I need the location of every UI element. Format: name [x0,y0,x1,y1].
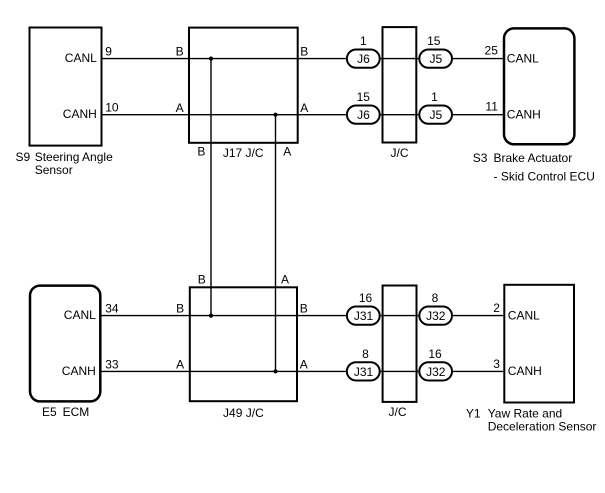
svg-text:CANL: CANL [65,51,97,65]
wire J32-to-Y1 pin 3 (net A bottom) [453,370,503,372]
svg-text:B: B [198,272,206,286]
svg-text:J6: J6 [357,52,370,66]
svg-text:9: 9 [105,45,112,59]
svg-text:E5: E5 [42,405,57,419]
svg-text:Y1: Y1 [466,407,481,421]
junction dot net B in J17 [209,57,213,61]
wire CANH S9-to-J6 (net A top) [103,114,346,116]
svg-text:A: A [176,358,184,372]
svg-text:J5: J5 [429,108,442,122]
svg-text:- Skid Control ECU: - Skid Control ECU [494,170,595,184]
svg-text:25: 25 [485,44,499,58]
wire J31-to-J32 through J/C (net A bottom) [381,370,419,372]
wire J5-to-S3 pin 11 (net A top) [453,114,503,116]
svg-text:CANH: CANH [507,108,541,122]
svg-text:16: 16 [428,347,442,361]
svg-text:A: A [283,145,291,159]
label S9 Steering Angle Sensor [16,150,114,177]
wire vertical net A J17-to-J49 [275,115,277,372]
svg-text:S9: S9 [16,150,31,164]
svg-text:Steering Angle: Steering Angle [35,150,113,164]
wire CANL E5-to-J31 (net B bottom) [102,315,346,317]
junction block J49 J/C box [190,287,297,401]
svg-text:8: 8 [432,291,439,305]
wire CANL S9-to-J6 (net B top) [103,58,346,60]
svg-text:1: 1 [431,90,438,104]
component S3 Brake Actuator box [504,28,574,144]
svg-text:J31: J31 [354,365,374,379]
svg-text:J49 J/C: J49 J/C [223,406,264,420]
svg-text:CANH: CANH [508,364,542,378]
component S9 Steering Angle Sensor box [30,28,102,146]
label E5 ECM [42,405,89,419]
svg-text:CANL: CANL [508,308,540,322]
svg-text:A: A [300,101,308,115]
connector J5 pin 1 (net A) [419,90,452,124]
svg-text:J5: J5 [429,52,442,66]
svg-text:J31: J31 [354,309,374,323]
wire vertical net B J17-to-J49 [210,59,212,316]
connector J32 pin 16 (net A) [419,347,452,381]
svg-text:33: 33 [105,358,119,372]
wire J32-to-Y1 pin 2 (net B bottom) [453,315,503,317]
svg-text:11: 11 [485,100,498,114]
svg-text:B: B [197,145,205,159]
connector J6 pin 15 (net A) [347,90,380,124]
junction dot net A in J17 [273,113,277,117]
svg-text:A: A [176,101,184,115]
svg-text:J/C: J/C [391,146,409,160]
junction dot net A in J49 [273,369,277,373]
label Y1 Yaw Rate and Deceleration Sensor [466,407,597,434]
svg-text:J/C: J/C [389,405,407,419]
svg-text:J32: J32 [426,365,446,379]
svg-text:15: 15 [357,90,371,104]
connector J5 pin 15 (net B) [419,34,452,68]
connector J32 pin 8 (net B) [419,291,452,325]
svg-text:B: B [176,302,184,316]
svg-text:8: 8 [362,347,369,361]
connector J6 pin 1 (net B) [347,34,380,68]
svg-text:Deceleration Sensor: Deceleration Sensor [488,420,597,434]
junction dot net B in J49 [209,314,213,318]
svg-text:15: 15 [427,34,441,48]
connector J31 pin 16 (net B) [347,291,380,325]
component E5 ECM box [30,286,100,402]
svg-text:J32: J32 [426,309,446,323]
svg-text:CANH: CANH [62,364,96,378]
connector J31 pin 8 (net A) [347,347,380,381]
svg-text:CANL: CANL [64,308,96,322]
junction block J/C box bottom [383,286,417,402]
svg-text:10: 10 [105,101,119,115]
wire J5-to-S3 pin 25 (net B top) [453,58,503,60]
svg-text:Sensor: Sensor [35,163,73,177]
svg-text:B: B [300,302,308,316]
svg-text:B: B [300,45,308,59]
label S3 Brake Actuator - Skid Control ECU [473,151,595,184]
svg-text:Brake Actuator: Brake Actuator [494,151,573,165]
svg-text:34: 34 [105,302,119,316]
svg-text:J17 J/C: J17 J/C [223,146,264,160]
svg-text:16: 16 [359,291,373,305]
svg-text:1: 1 [360,34,367,48]
component Y1 Yaw Rate and Deceleration Sensor box [504,285,574,403]
svg-text:S3: S3 [473,151,488,165]
svg-text:CANH: CANH [63,107,97,121]
svg-text:J6: J6 [357,108,370,122]
junction block J/C box top [383,27,417,142]
svg-text:2: 2 [493,301,500,315]
svg-text:ECM: ECM [63,405,90,419]
svg-text:CANL: CANL [507,51,539,65]
svg-text:A: A [281,272,289,286]
wire J6-to-J5 through J/C (net A top) [381,114,419,116]
svg-text:3: 3 [493,357,500,371]
junction block J17 J/C box [189,28,298,143]
svg-text:Yaw Rate and: Yaw Rate and [488,407,563,421]
wire CANH E5-to-J31 (net A bottom) [102,370,346,372]
svg-text:B: B [176,45,184,59]
wire J31-to-J32 through J/C (net B bottom) [381,315,419,317]
svg-text:A: A [300,358,308,372]
wire J6-to-J5 through J/C (net B top) [381,58,419,60]
